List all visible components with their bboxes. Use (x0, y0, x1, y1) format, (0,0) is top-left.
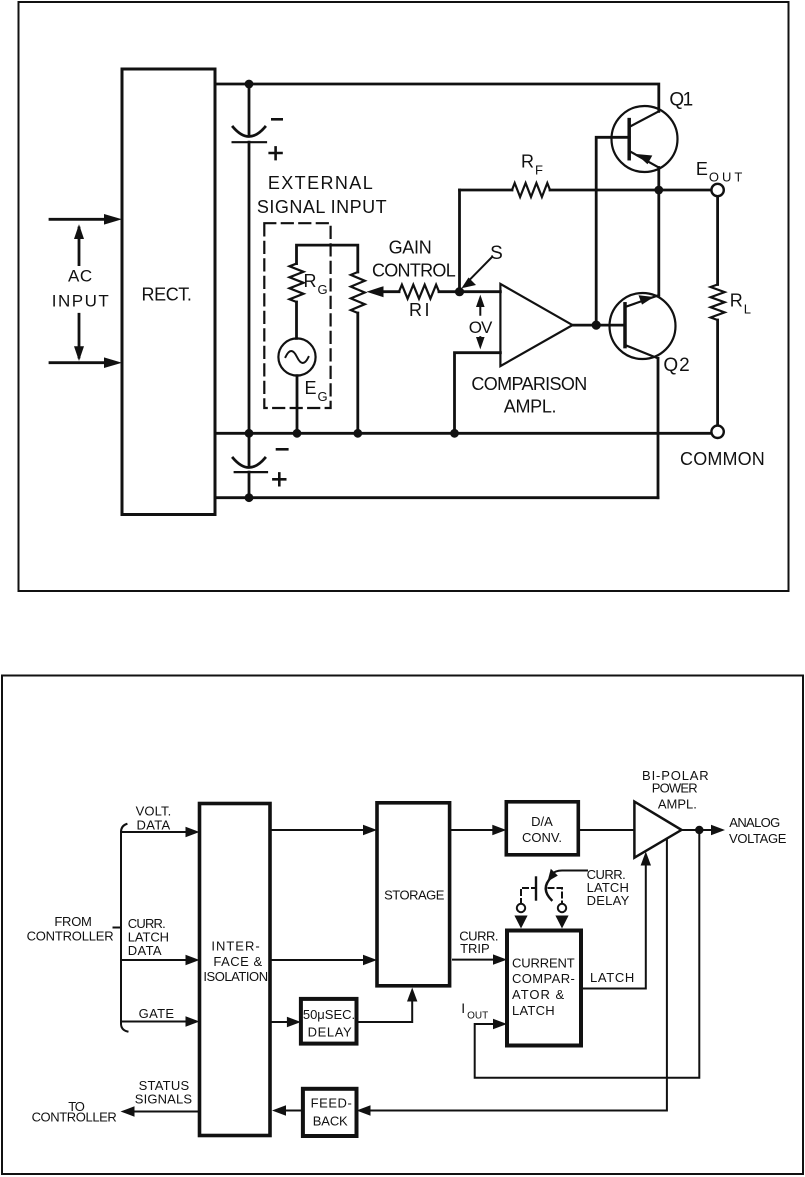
arrowhead AC bottom into RECT (104, 357, 122, 368)
arrowhead Q2 collector pointing out (639, 295, 654, 304)
wire AC input bottom lead (50, 361, 110, 364)
wire RF left segment (460, 189, 513, 192)
svg-text:CONV.: CONV. (522, 830, 562, 845)
transistor Q2 circle (610, 293, 676, 359)
junction dot EG at common rail (293, 429, 302, 438)
wire AC span arrow shafts (78, 228, 81, 357)
svg-text:VOLTAGE: VOLTAGE (729, 831, 787, 846)
arrowhead status to controller (121, 1106, 135, 1116)
junction dot op-amp minus at common rail (450, 429, 459, 438)
transistor Q1 emitter slant (629, 151, 659, 168)
svg-text:CONTROL: CONTROL (372, 261, 456, 281)
junction dot positive rail at C1 (245, 80, 254, 89)
junction dot node S (455, 287, 464, 296)
svg-text:VOLT.: VOLT. (136, 804, 172, 819)
arrowhead latch delay left into comparator (514, 916, 527, 929)
svg-text:CONTROLLER: CONTROLLER (27, 929, 114, 944)
svg-text:RI: RI (409, 300, 432, 320)
svg-text:GAIN: GAIN (389, 238, 432, 258)
wire interface to storage top (272, 829, 365, 831)
wire common rail middle (215, 432, 711, 435)
svg-text:ISOLATION: ISOLATION (203, 969, 267, 984)
C2 plus sign (272, 472, 286, 486)
wire Q1 emitter to EOUT node (657, 168, 660, 191)
dashed box external signal input (264, 223, 330, 408)
wire RL to common terminal (716, 320, 719, 426)
svg-text:AMPL.: AMPL. (658, 797, 697, 812)
arrowhead iout into comparator (493, 1019, 507, 1029)
svg-text:EXTERNAL: EXTERNAL (268, 173, 374, 193)
op-amp U1 comparison amplifier (500, 284, 572, 366)
svg-text:FACE &: FACE & (213, 954, 262, 969)
C2 minus sign (276, 448, 289, 451)
open circle latch delay left (517, 904, 525, 912)
wire RG top to potentiometer (297, 245, 358, 272)
junction dot EOUT (654, 186, 663, 195)
OV arrow shafts (479, 301, 481, 344)
svg-text:DELAY: DELAY (587, 893, 630, 908)
arrowhead S leader (462, 278, 477, 289)
wire node S up to RF (458, 190, 461, 292)
leader line for curr latch delay (552, 871, 588, 875)
brace grouping controller inputs (121, 824, 128, 1032)
rectifier block RECT. (122, 69, 215, 515)
wire curr trip storage to comparator (453, 959, 493, 961)
wire storage to D/A (451, 829, 494, 831)
svg-text:COMPAR-: COMPAR- (512, 971, 575, 986)
transistor Q1 base bar (627, 120, 631, 159)
svg-text:ANALOG: ANALOG (729, 815, 780, 830)
capacitor C2 curved plate (233, 458, 265, 468)
arrowhead leader curr latch delay (548, 869, 558, 882)
wire negative rail bottom (215, 496, 658, 499)
wire RG to EG (295, 302, 298, 338)
svg-text:INPUT: INPUT (52, 292, 111, 311)
svg-text:BACK: BACK (313, 1114, 348, 1129)
arrowhead AC span down (74, 346, 84, 361)
interface and isolation block (200, 804, 271, 1136)
arrowhead interface to storage middle (363, 955, 377, 965)
sine symbol inside EG (286, 351, 309, 363)
svg-text:STORAGE: STORAGE (384, 888, 445, 903)
wire potentiometer to common rail (356, 313, 359, 433)
wire volt data (121, 831, 188, 833)
resistor RF (512, 183, 550, 197)
wire EOUT to load resistor (716, 196, 719, 284)
capacitor C2 top lead (248, 433, 251, 465)
wire op-amp output to Q2 base (573, 324, 626, 327)
svg-text:Q2: Q2 (663, 355, 690, 376)
wire interface to storage middle (272, 959, 365, 961)
C1 plus sign (268, 146, 282, 160)
arrowhead wiper into potentiometer (367, 286, 384, 297)
capacitor C1 straight plate (233, 141, 266, 143)
capacitor C2 bottom lead (248, 472, 251, 498)
wire op-amp output up to Q1 base (596, 137, 629, 325)
storage block (377, 803, 450, 986)
wire RF to EOUT node (550, 189, 711, 192)
source EG circle (278, 338, 315, 375)
capacitor C1 bottom lead (248, 142, 251, 433)
arrowhead AC span up (74, 224, 84, 239)
junction dot analog output (695, 826, 703, 834)
svg-text:DELAY: DELAY (308, 1025, 353, 1040)
svg-text:GATE: GATE (139, 1006, 175, 1021)
tick from controller label (114, 927, 122, 929)
terminal COMMON open circle (711, 426, 723, 438)
resistor RI (399, 285, 439, 299)
svg-text:DATA: DATA (128, 943, 162, 958)
svg-text:ATOR &: ATOR & (512, 987, 565, 1002)
capacitor C1 curved plate (233, 127, 265, 137)
wire RI to op-amp plus input (node S) (439, 290, 500, 293)
svg-text:Q1: Q1 (669, 90, 692, 111)
arrowhead analog voltage (711, 825, 725, 835)
wire EG to common rail (296, 376, 299, 434)
wire wiper to RI (382, 290, 399, 293)
D/A converter block (506, 802, 578, 855)
wire op-amp minus input (455, 353, 501, 434)
arrowhead volt data into interface (186, 827, 200, 837)
svg-text:INTER-: INTER- (211, 939, 260, 954)
svg-text:AC: AC (68, 267, 93, 286)
C1 minus sign (271, 118, 283, 121)
capacitor C2 straight plate (235, 471, 267, 473)
current comparator and latch block (507, 931, 581, 1046)
arrowhead curr latch data into interface (186, 955, 200, 965)
transistor Q2 collector slant (625, 295, 659, 307)
wire D/A to power amp (580, 829, 634, 831)
svg-text:COMPARISON: COMPARISON (471, 374, 586, 394)
arrowhead latch into amp underside (641, 852, 651, 866)
svg-text:RECT.: RECT. (141, 285, 191, 305)
svg-text:POWER: POWER (652, 781, 698, 796)
arrowhead storage to D/A (492, 825, 506, 835)
wire feedback tap from amp underside (370, 839, 667, 1111)
wire Q2 emitter to negative rail (657, 358, 660, 497)
transistor Q1 collector slant (629, 111, 659, 127)
capacitor latch delay straight plate (535, 878, 537, 900)
arrowhead curr trip into comparator (493, 954, 507, 964)
wire delay to storage bottom (359, 1000, 413, 1022)
wire interface to delay (272, 1021, 289, 1023)
wire AC input top lead (50, 218, 110, 221)
junction dot op-amp output (592, 321, 601, 330)
svg-text:FEED-: FEED- (311, 1096, 353, 1111)
junction dot negative rail at C2 (245, 493, 254, 502)
svg-text:CONTROLLER: CONTROLLER (32, 1110, 117, 1125)
feedback block (303, 1089, 357, 1136)
wire latch comparator to amp (581, 864, 646, 989)
svg-text:LATCH: LATCH (590, 970, 635, 985)
svg-text:CURRENT: CURRENT (512, 956, 575, 971)
svg-text:SIGNAL INPUT: SIGNAL INPUT (257, 197, 387, 217)
arrowhead feedback into interface (272, 1105, 286, 1115)
potentiometer gain control resistor (351, 272, 365, 313)
border frame bottom figure (2, 676, 803, 1175)
transistor Q1 circle (612, 106, 678, 172)
wire positive rail top (215, 84, 659, 111)
power amp triangle bi-polar (634, 802, 681, 858)
resistor RG (290, 264, 304, 302)
50usec delay block (301, 999, 357, 1044)
transistor Q2 emitter slant (625, 345, 658, 358)
arrowhead OV down (476, 337, 485, 349)
svg-text:AMPL.: AMPL. (504, 397, 557, 417)
wire gate (121, 1021, 188, 1023)
svg-text:FROM: FROM (54, 914, 91, 929)
svg-text:COMMON: COMMON (680, 449, 765, 469)
wire analog voltage output (682, 829, 713, 831)
arrowhead OV up (476, 295, 485, 307)
capacitor latch delay curved plate (546, 877, 552, 900)
svg-text:LATCH: LATCH (512, 1003, 555, 1018)
arrowhead latch delay right into comparator (555, 916, 568, 929)
arrowhead delay into storage bottom (407, 988, 417, 1002)
svg-text:50μSEC.: 50μSEC. (303, 1007, 355, 1022)
wire EOUT node down to Q2 collector (657, 190, 660, 295)
svg-text:TRIP: TRIP (460, 941, 490, 956)
svg-text:S: S (490, 243, 504, 264)
arrowhead AC top into RECT (104, 214, 122, 225)
wire feedback to interface (285, 1110, 303, 1112)
arrowhead gate into interface (186, 1016, 200, 1026)
wire interface to controller status (133, 1111, 200, 1113)
svg-text:DATA: DATA (137, 818, 171, 833)
svg-text:SIGNALS: SIGNALS (135, 1092, 193, 1107)
wire curr latch data (121, 959, 188, 961)
terminal EOUT open circle (711, 184, 723, 196)
arrowhead Q1 emitter pointing to base (636, 154, 652, 164)
resistor RL (711, 285, 725, 321)
wire iout loop from output dot (475, 830, 700, 1078)
capacitor C1 top lead (248, 84, 251, 134)
border frame top figure (19, 2, 789, 591)
junction dot potentiometer at common rail (353, 429, 362, 438)
transistor Q2 base bar (623, 304, 627, 347)
junction dot common rail at C1 (245, 429, 254, 438)
svg-text:OV: OV (469, 318, 493, 337)
svg-text:D/A: D/A (531, 814, 553, 829)
dashed wires curr latch delay capacitor (521, 888, 562, 904)
arrowhead interface to storage top (363, 825, 377, 835)
open circle latch delay right (558, 904, 566, 912)
leader line for node S (468, 258, 492, 282)
arrowhead into delay (287, 1017, 301, 1027)
arrowhead into feedback block (357, 1105, 371, 1115)
